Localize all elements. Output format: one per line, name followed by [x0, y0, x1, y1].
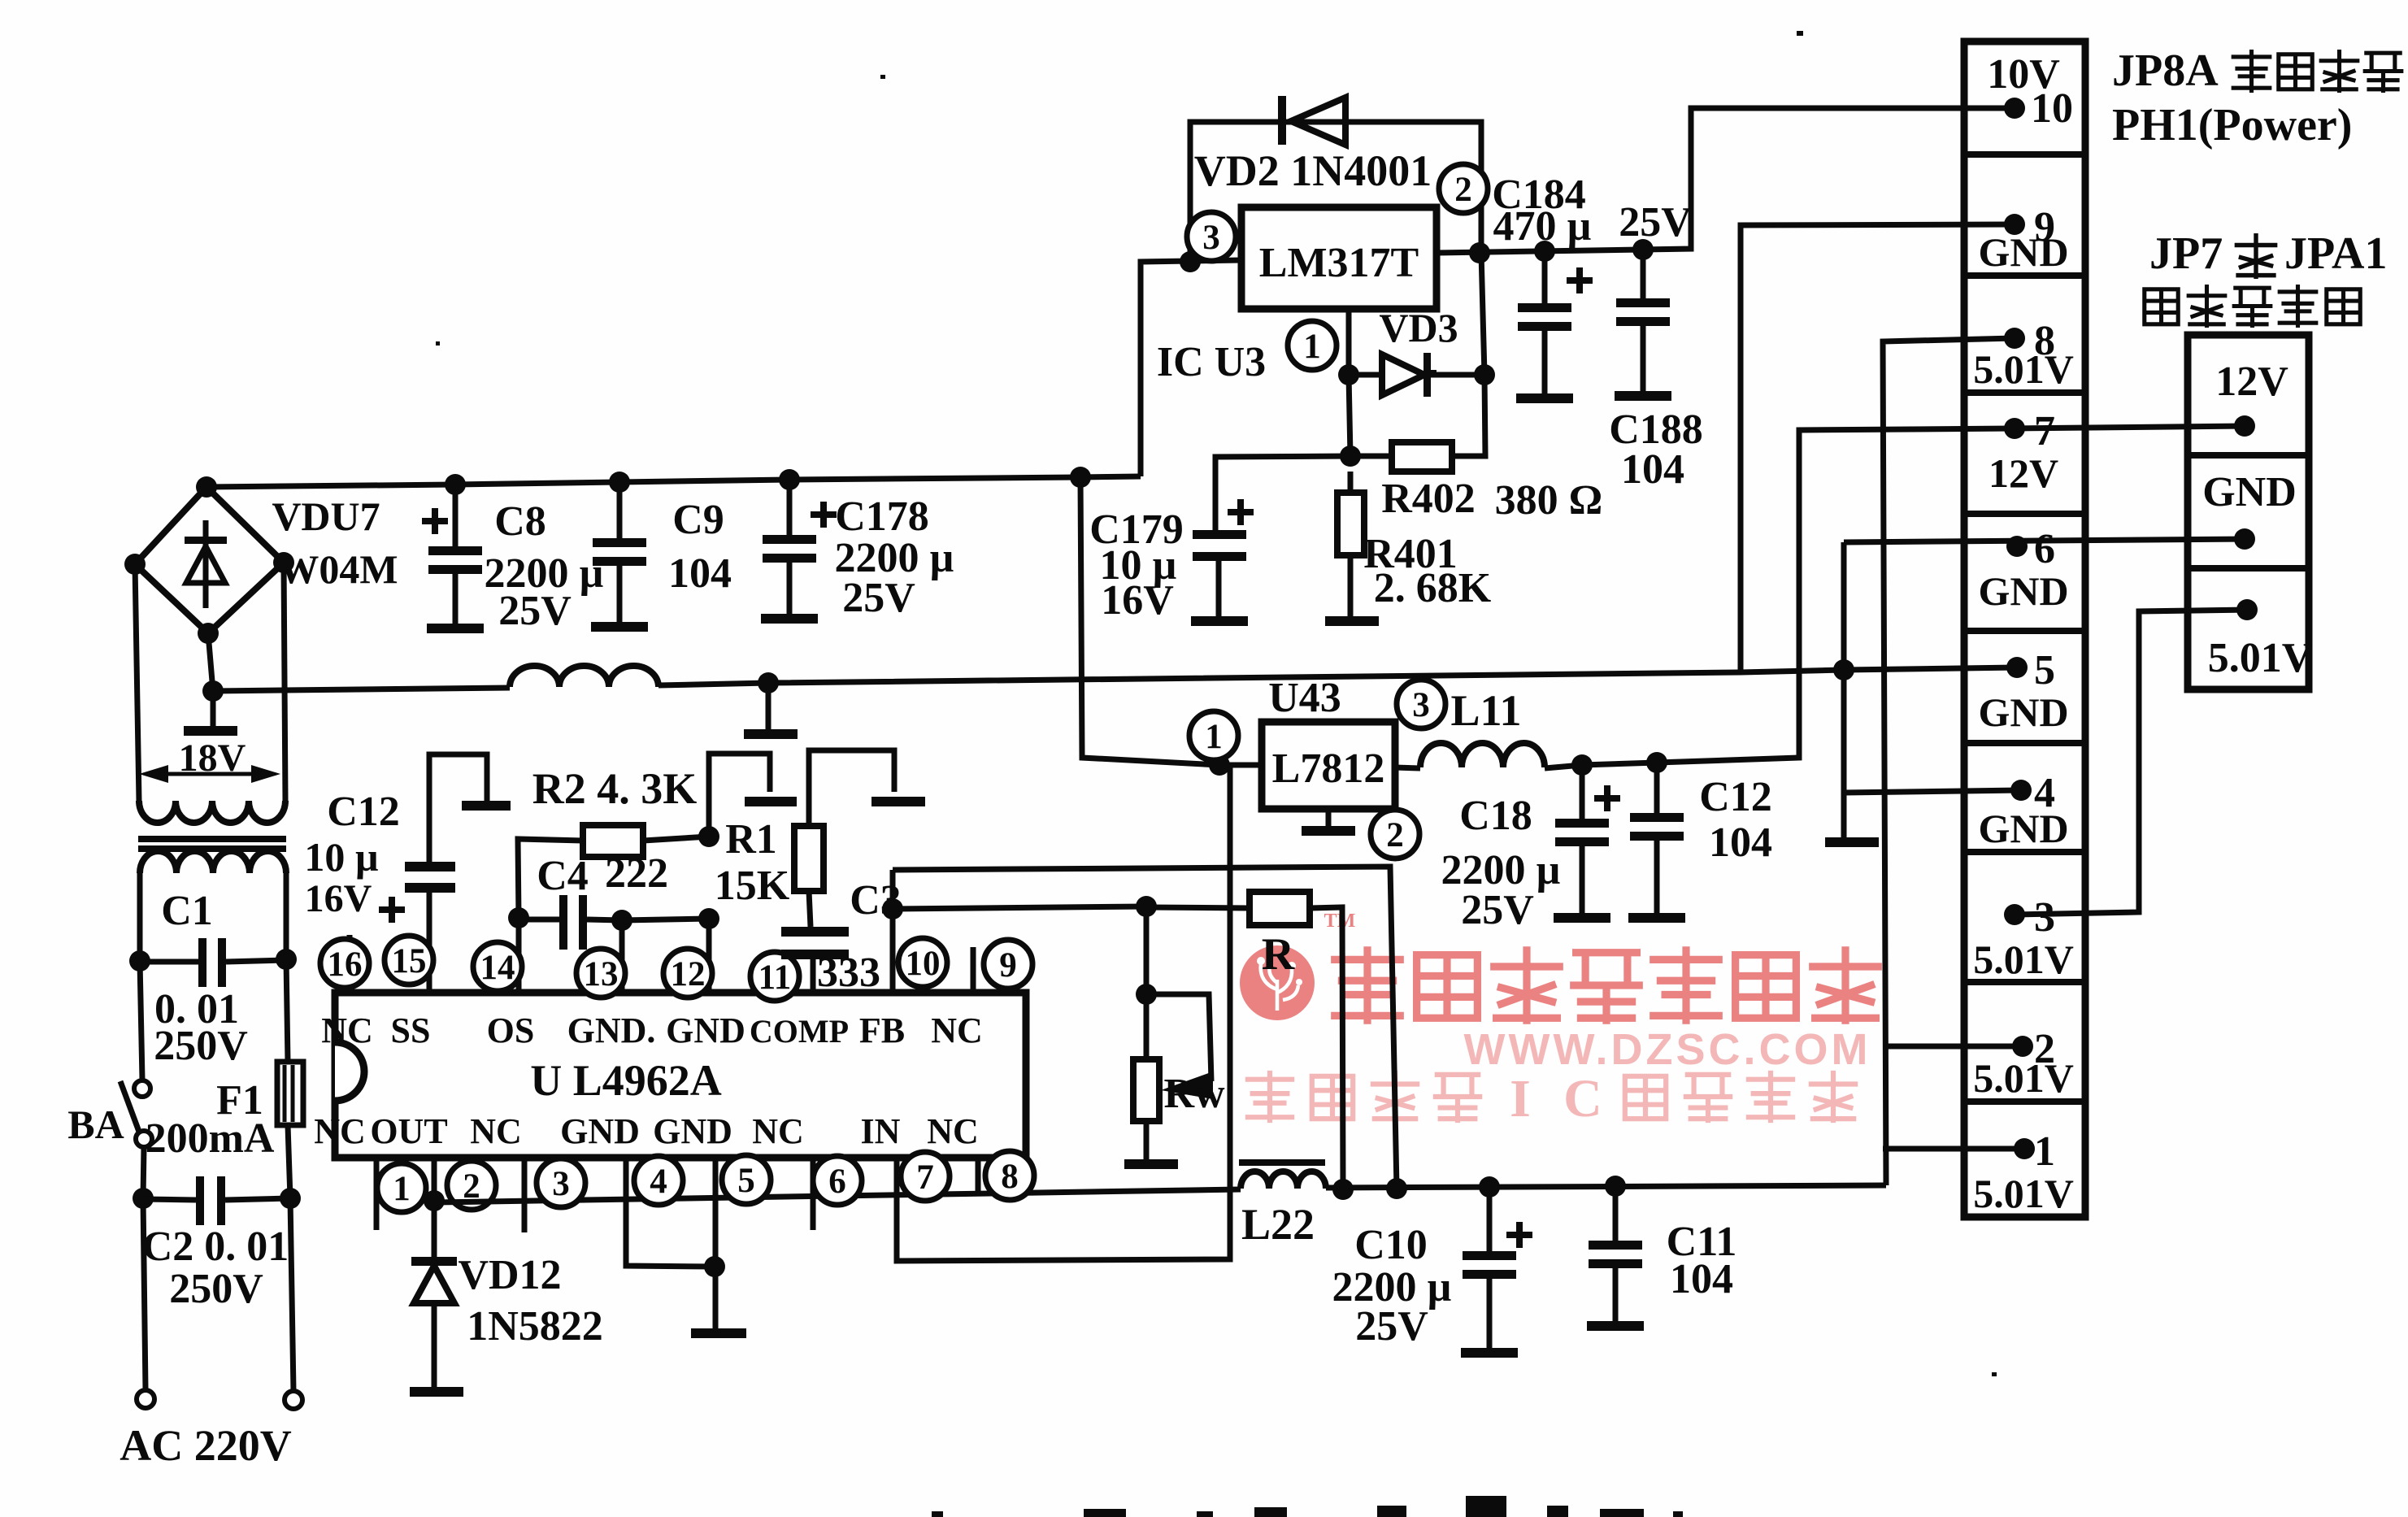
pin 8 stub to OUT rail — [976, 1158, 981, 1195]
svg-text:16V: 16V — [305, 877, 372, 920]
svg-text:NC: NC — [752, 1111, 804, 1151]
svg-text:GND: GND — [1978, 568, 2068, 614]
connector JP7 3-pin box — [2188, 335, 2309, 689]
pin 6 circled — [813, 1156, 862, 1205]
connector JP8A 10-pin box — [1964, 41, 2085, 1217]
svg-text:470 µ: 470 µ — [1493, 203, 1592, 250]
ground connector GND pins — [1825, 837, 1879, 847]
wire GND bus from bridge bottom to connector pin5 — [213, 688, 510, 691]
node OUT-C10 junction — [1479, 1176, 1500, 1198]
svg-text:5: 5 — [737, 1162, 755, 1200]
pin 2 circled (L7812 gnd) — [1371, 810, 1419, 858]
svg-text:11: 11 — [758, 958, 792, 997]
svg-text:COMP: COMP — [750, 1013, 849, 1050]
switch BA — [134, 1080, 150, 1097]
svg-text:16V: 16V — [1101, 577, 1174, 624]
connector JP8A pin dots — [2004, 98, 2025, 119]
capacitor C2 0.01 250V — [143, 1199, 196, 1200]
svg-text:1: 1 — [2034, 1128, 2055, 1175]
svg-text:5.01V: 5.01V — [1973, 346, 2074, 392]
svg-text:380 Ω: 380 Ω — [1495, 477, 1603, 524]
pin 2 stub OUT — [432, 1158, 437, 1201]
capacitor C4 222 — [519, 917, 559, 923]
node GND bus ground tap — [758, 672, 779, 693]
pin 11 stub to C3 — [811, 959, 816, 993]
capacitor C184 470u 25V — [1542, 251, 1548, 303]
capacitor C3 333 — [809, 891, 811, 927]
ground staple C — [871, 797, 925, 806]
transformer primary winding — [140, 851, 286, 873]
pin 1 circled — [377, 1163, 426, 1212]
svg-text:PH1(Power): PH1(Power) — [2112, 100, 2352, 150]
wire VD2 bypass loop — [1190, 122, 1481, 262]
wire R2 node ground staple — [709, 754, 770, 837]
svg-text:333: 333 — [817, 950, 880, 996]
svg-text:GND: GND — [560, 1111, 640, 1151]
pin 16 circled — [320, 939, 369, 988]
node VD2 loop left leg joins pin3 wire — [1180, 251, 1201, 272]
node adj-R402-R401 junction — [1340, 446, 1361, 467]
svg-text:5.01V: 5.01V — [1973, 1055, 2074, 1101]
svg-text:7: 7 — [916, 1158, 934, 1197]
node output-VD2loop junction — [1469, 242, 1490, 263]
capacitor C12 104 (12V rail) — [1654, 763, 1660, 813]
svg-text:U43: U43 — [1268, 675, 1341, 721]
svg-text:L7812: L7812 — [1272, 745, 1385, 792]
watermark dzsc.com logo and text (decorative overlay) — [1240, 911, 1878, 1128]
ground R401 — [1325, 616, 1379, 626]
wire pin6 GND to JP7 — [1844, 539, 2245, 542]
wire main +18V bus from bridge top to LM317 riser — [206, 476, 1141, 487]
pin 11 circled — [750, 952, 799, 1001]
wire C178 node to L7812 input — [1080, 477, 1262, 765]
svg-text:Rw: Rw — [1163, 1071, 1225, 1117]
svg-text:GND: GND — [1978, 229, 2068, 275]
svg-text:104: 104 — [1670, 1256, 1733, 1302]
svg-text:FB: FB — [859, 1011, 905, 1050]
svg-text:C: C — [1563, 1069, 1602, 1128]
svg-text:R2 4. 3K: R2 4. 3K — [532, 764, 698, 813]
node bus-C8 junction — [445, 474, 466, 495]
pin 16 stub (NC) — [347, 935, 353, 993]
svg-text:NC: NC — [927, 1111, 979, 1151]
svg-text:2: 2 — [1386, 816, 1404, 854]
node adj junction — [1338, 364, 1359, 385]
node C1 right — [276, 949, 297, 970]
node C4 right pin13 junction — [611, 910, 632, 931]
node OUT-H1 junction — [1386, 1178, 1407, 1199]
node bus-C9 junction — [609, 472, 630, 493]
svg-text:R: R — [1262, 929, 1295, 980]
wire 12V from L11 to connector pin7 and JP7 — [1545, 426, 2245, 768]
wire riser bus to LM317 pin3 — [1141, 260, 1241, 476]
pin 15 circled — [385, 936, 433, 985]
svg-text:VD12: VD12 — [458, 1252, 561, 1298]
node R2 right junction — [698, 826, 719, 847]
wire LM317 output to riser corner — [1437, 108, 2015, 253]
svg-text:104: 104 — [1621, 446, 1684, 493]
diode VD2 1N4001 (points left on loop top) — [1278, 96, 1286, 145]
svg-text:25V: 25V — [498, 588, 572, 634]
svg-text:25V: 25V — [1461, 887, 1534, 933]
pin 2 circled — [447, 1161, 496, 1210]
svg-text:12V: 12V — [1989, 450, 2058, 496]
node pin4-pin5 gnd junction — [704, 1256, 725, 1277]
capacitor C12 10u 16V at pin15 — [405, 862, 455, 872]
node VD3 cathode junction — [1474, 364, 1495, 385]
svg-text:15: 15 — [392, 942, 427, 980]
pin 6 stub (NC) — [811, 1158, 816, 1230]
svg-text:C9: C9 — [672, 497, 724, 543]
pin 3 circled (LM317 input) — [1187, 212, 1236, 261]
pin 12 circled — [663, 949, 712, 998]
ground Rw — [1124, 1159, 1178, 1169]
node C2 left — [133, 1188, 154, 1209]
svg-text:3: 3 — [1202, 219, 1220, 257]
potentiometer Rw body — [1144, 994, 1150, 1059]
node output-C184 junction — [1534, 241, 1555, 262]
capacitor C178 2200u 25V — [787, 480, 793, 535]
svg-text:2. 68K: 2. 68K — [1374, 565, 1492, 611]
pin 5 stub GND — [713, 1158, 719, 1267]
svg-text:GND: GND — [2202, 469, 2297, 515]
pin 5 circled — [722, 1155, 771, 1204]
wire pin2 branch — [1883, 1044, 2023, 1050]
capacitor C179 10u 16V — [1193, 530, 1246, 539]
svg-text:BA: BA — [67, 1102, 124, 1147]
svg-text:C1: C1 — [161, 888, 213, 934]
ground pins 4-5 — [713, 1267, 719, 1328]
svg-text:LM317T: LM317T — [1259, 240, 1419, 286]
svg-text:3: 3 — [2034, 894, 2055, 941]
node R-Rw divider top — [1136, 896, 1157, 917]
wire to AC terminal right — [290, 1198, 293, 1391]
node 12V C18 junction — [1571, 754, 1593, 776]
wire 5V riser to pin8 — [1883, 338, 2015, 1185]
node Rw top junction — [1136, 984, 1157, 1005]
pin 12 stub — [706, 919, 712, 993]
svg-text:OS: OS — [487, 1011, 535, 1050]
svg-text:8: 8 — [1001, 1158, 1019, 1196]
wire pin4 branch — [1841, 542, 1847, 670]
svg-text:NC: NC — [314, 1111, 366, 1151]
node C4 left junction — [508, 907, 529, 928]
wire bridge bottom vertex stem — [208, 633, 213, 691]
svg-text:GND: GND — [1978, 689, 2068, 735]
node OUT-C11 junction — [1605, 1176, 1626, 1197]
svg-text:5.01V: 5.01V — [1973, 1171, 2074, 1216]
resistor R feedback — [1146, 907, 1250, 908]
OUT rail to L22 — [434, 1189, 1241, 1202]
svg-text:6: 6 — [828, 1163, 846, 1201]
node output-C188 junction — [1632, 239, 1654, 260]
svg-text:L22: L22 — [1241, 1200, 1315, 1249]
node 12V C12 junction — [1646, 752, 1667, 773]
svg-text:6: 6 — [2034, 526, 2055, 572]
resistor R1 15K — [794, 826, 824, 891]
capacitor C1 0.01 250V — [140, 959, 198, 965]
wire pin3 to JP7 5.01V — [2015, 610, 2247, 915]
svg-text:VDU7: VDU7 — [272, 493, 380, 539]
svg-text:C178: C178 — [835, 493, 929, 540]
wire FB H1 to output node — [893, 867, 1397, 1189]
svg-text:I: I — [1510, 1069, 1531, 1128]
ground L7812 pin2 — [1326, 809, 1332, 826]
terminal AC right — [285, 1391, 302, 1409]
svg-text:200mA: 200mA — [146, 1115, 275, 1162]
node bus-C178 junction — [779, 469, 800, 490]
svg-text:4: 4 — [650, 1163, 667, 1201]
svg-text:10: 10 — [2031, 85, 2073, 132]
svg-text:NC: NC — [321, 1011, 373, 1050]
svg-text:R402: R402 — [1381, 476, 1476, 522]
node FB-H2 junction on pin10 stub — [882, 898, 903, 919]
ground staple B — [745, 797, 797, 806]
capacitor C188 104 — [1641, 250, 1646, 298]
svg-text:3: 3 — [1412, 686, 1430, 724]
pin 1 circled (LM317 adj) — [1288, 321, 1337, 370]
svg-text:R1: R1 — [725, 816, 777, 863]
wire Rw wiper arm — [1146, 994, 1211, 1081]
pin 3 circled — [537, 1158, 585, 1207]
svg-text:OUT: OUT — [370, 1111, 447, 1151]
node L7812 input junction — [1209, 754, 1230, 776]
pin 9 circled — [984, 940, 1032, 989]
wire C4 to pin12 vertical — [622, 919, 709, 920]
node OUT-vR junction — [1332, 1179, 1354, 1200]
svg-text:JP7: JP7 — [2149, 228, 2223, 279]
wire divider vertical — [1144, 906, 1150, 994]
resistor R402 380ohm — [1392, 442, 1452, 472]
IC U L4962A box — [335, 993, 1026, 1158]
op-amp U43 regulator L7812 box — [1262, 722, 1395, 809]
wire OUT rail after L22 — [1326, 1185, 1886, 1188]
wire pin9 GND riser — [1741, 224, 2015, 672]
svg-text:25V: 25V — [842, 575, 915, 621]
pin 14 stub — [516, 918, 522, 993]
wire bridge left leg — [135, 564, 139, 801]
wire adj node to C179 — [1215, 456, 1350, 530]
pin 4 stub GND — [626, 1158, 715, 1267]
scan speck — [1797, 31, 1803, 36]
svg-text:15K: 15K — [715, 863, 790, 909]
svg-text:GND: GND — [653, 1111, 732, 1151]
transformer 18V double arrow — [167, 772, 253, 776]
svg-text:C8: C8 — [494, 498, 546, 545]
pin 4 circled — [634, 1156, 683, 1205]
pin 1 circled (L7812 in) — [1189, 711, 1238, 760]
svg-text:C18: C18 — [1459, 793, 1532, 839]
wire VD2 loop right leg down to R402 — [1452, 253, 1485, 456]
terminal AC left — [137, 1390, 154, 1408]
ground mid GND bus — [766, 683, 772, 729]
pin 9 stub (NC) — [971, 947, 976, 993]
svg-text:5.01V: 5.01V — [1973, 937, 2074, 982]
svg-text:U L4962A: U L4962A — [530, 1056, 722, 1105]
caption fragment (cut-off text at bottom) — [932, 1511, 943, 1517]
node GND bus pin4 branch — [1833, 659, 1854, 680]
pin 10 stub (FB) — [890, 870, 896, 993]
wire pin4-5 ground drop — [1841, 670, 1847, 837]
wire pin1 branch — [1883, 1146, 2024, 1152]
svg-text:5: 5 — [2034, 647, 2055, 693]
svg-text:25V: 25V — [1355, 1303, 1428, 1350]
svg-text:1: 1 — [393, 1170, 411, 1208]
resistor R401 2.68K — [1348, 472, 1354, 493]
diode VD3 (points right) — [1349, 372, 1382, 378]
inductor L22 — [1239, 1159, 1325, 1166]
svg-text:16: 16 — [328, 945, 363, 984]
pin 8 circled — [985, 1151, 1034, 1200]
wire primary right leg — [284, 873, 289, 959]
svg-text:GND: GND — [1978, 806, 2068, 851]
node bus corner to LM317 pin3 riser — [1070, 467, 1091, 488]
diode VD12 1N5822 — [432, 1201, 437, 1257]
svg-text:222: 222 — [605, 850, 668, 897]
svg-text:5.01V: 5.01V — [2208, 635, 2313, 681]
capacitor C9 104 — [617, 482, 623, 538]
resistor R2 4.3K — [583, 825, 643, 857]
wire FB H2 to R divider — [893, 906, 1146, 909]
pin 1 stub (NC) — [374, 1158, 380, 1230]
node OUT pin2 junction — [424, 1190, 445, 1211]
svg-text:C12: C12 — [1699, 774, 1772, 820]
pin 10 circled — [898, 938, 947, 987]
svg-text:JPA1: JPA1 — [2284, 228, 2388, 279]
wire C1 left to switch — [140, 961, 142, 1080]
node C2 right — [280, 1188, 301, 1209]
node bridge bottom on GND bus — [202, 680, 224, 702]
svg-text:14: 14 — [480, 949, 515, 987]
svg-text:1N5822: 1N5822 — [467, 1303, 603, 1350]
svg-text:C2 0. 01: C2 0. 01 — [142, 1224, 289, 1270]
svg-text:250V: 250V — [154, 1023, 248, 1069]
capacitor C10 2200u 25V — [1487, 1187, 1493, 1251]
svg-text:NC: NC — [931, 1011, 983, 1050]
svg-text:12: 12 — [671, 955, 706, 993]
pin 13 stub — [619, 920, 625, 993]
svg-text:W04M: W04M — [278, 546, 398, 592]
svg-text:IC U3: IC U3 — [1157, 339, 1266, 385]
svg-text:C4: C4 — [537, 853, 589, 899]
svg-text:2: 2 — [1454, 171, 1472, 209]
svg-text:25V: 25V — [1619, 199, 1692, 246]
svg-text:104: 104 — [1709, 819, 1772, 866]
svg-text:104: 104 — [668, 550, 732, 597]
pin 7 circled — [901, 1152, 950, 1201]
inductor L11 — [1395, 767, 1420, 768]
pin 3 circled (L7812 out) — [1397, 680, 1445, 728]
svg-text:NC: NC — [470, 1111, 522, 1151]
svg-text:10 µ: 10 µ — [304, 834, 378, 880]
svg-text:VD2 1N4001: VD2 1N4001 — [1194, 146, 1432, 195]
node C1 left — [129, 950, 150, 971]
svg-text:GND: GND — [666, 1011, 745, 1050]
bridge rectifier VDU7 W04M diamond — [135, 487, 284, 633]
capacitor C8 2200u 25V — [453, 485, 459, 546]
svg-text:C12: C12 — [327, 789, 400, 835]
pin 15 stub to C12 — [427, 893, 432, 993]
capacitor C18 2200u 25V — [1580, 765, 1585, 819]
wire bridge right leg — [284, 563, 285, 801]
node pin12 junction — [698, 908, 719, 929]
svg-text:250V: 250V — [169, 1266, 263, 1312]
wire LM317 adj stem — [1346, 309, 1352, 375]
label (then to servo board) — [2145, 289, 2178, 324]
svg-text:JP8A: JP8A — [2112, 46, 2219, 96]
potentiometer Rw wiper arrow — [1161, 1071, 1213, 1099]
svg-text:GND.: GND. — [567, 1011, 656, 1050]
pin 7 stub IN loop — [897, 765, 1230, 1261]
wire to AC terminal left — [143, 1198, 146, 1390]
pin 13 circled — [576, 949, 625, 998]
svg-text:1: 1 — [1205, 718, 1223, 756]
capacitor C11 104 — [1613, 1186, 1619, 1241]
ground below bridge — [211, 691, 216, 726]
connector JP7 pin dots — [2234, 415, 2255, 437]
svg-text:C10: C10 — [1354, 1222, 1428, 1268]
svg-text:AC 220V: AC 220V — [120, 1421, 292, 1470]
pin 2 circled (LM317 output) — [1439, 164, 1488, 213]
svg-text:9: 9 — [999, 946, 1017, 985]
pin 3 stub (NC) — [522, 1158, 528, 1232]
svg-text:12V: 12V — [2215, 359, 2288, 405]
svg-text:13: 13 — [584, 955, 619, 993]
fuse F1 200mA — [286, 959, 288, 1062]
svg-text:10: 10 — [906, 945, 941, 983]
svg-text:IN: IN — [861, 1111, 901, 1151]
svg-text:7: 7 — [2034, 408, 2055, 454]
svg-text:VD3: VD3 — [1379, 305, 1458, 350]
svg-text:1: 1 — [1303, 328, 1321, 366]
transformer core — [138, 836, 286, 842]
svg-text:WWW.DZSC.COM: WWW.DZSC.COM — [1464, 1025, 1871, 1074]
svg-text:L11: L11 — [1450, 686, 1521, 735]
transformer secondary 18V winding — [139, 801, 285, 823]
wire primary left leg — [137, 873, 143, 961]
ground VD12 — [410, 1387, 463, 1397]
wire adj down to R401 node — [1349, 375, 1350, 456]
svg-text:SS: SS — [391, 1011, 431, 1050]
op-amp U3 regulator LM317T box — [1241, 207, 1437, 309]
pin 14 circled — [473, 942, 522, 991]
svg-text:3: 3 — [552, 1165, 570, 1203]
